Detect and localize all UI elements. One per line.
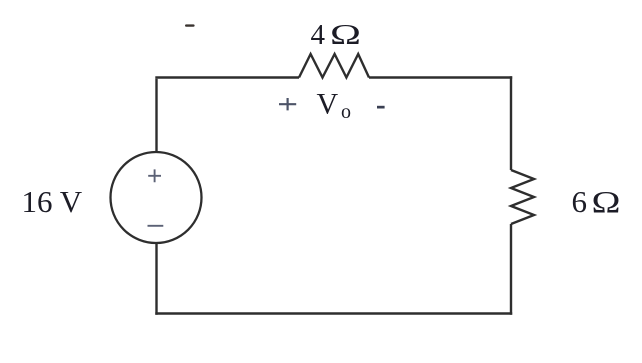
polarity − mark inside source: [148, 225, 164, 227]
svg-text:o: o: [341, 101, 351, 123]
resistor R2 (6 Ω) zigzag: [511, 170, 534, 224]
voltage source V1 (16 V) circle: [111, 152, 202, 243]
wire: top horizontal right segment: [369, 76, 512, 78]
svg-text:4: 4: [311, 19, 326, 51]
wire: top horizontal left segment: [155, 76, 299, 78]
wire: right vertical upper: [510, 76, 512, 170]
wire: left vertical upper (top-left corner to source top): [155, 79, 157, 152]
label + (Vo polarity): [279, 98, 296, 110]
label Vo: [317, 88, 352, 124]
resistor R1 (4 Ω) zigzag: [299, 54, 369, 78]
wire: bottom horizontal: [155, 312, 512, 314]
svg-text:V: V: [317, 88, 339, 121]
label − (Vo polarity): [377, 106, 385, 109]
svg-text:Ω: Ω: [330, 19, 361, 51]
wire: right vertical lower: [510, 224, 512, 315]
polarity + mark inside source: [148, 169, 161, 182]
svg-text:16 V: 16 V: [22, 184, 83, 219]
stray dash mark top: [185, 24, 195, 26]
label 6 Ω: [572, 184, 621, 219]
svg-text:Ω: Ω: [592, 184, 621, 219]
wire: left vertical lower (source bottom to bottom wire): [155, 243, 157, 315]
label 4 Ω: [311, 19, 362, 51]
svg-text:6: 6: [572, 184, 588, 219]
